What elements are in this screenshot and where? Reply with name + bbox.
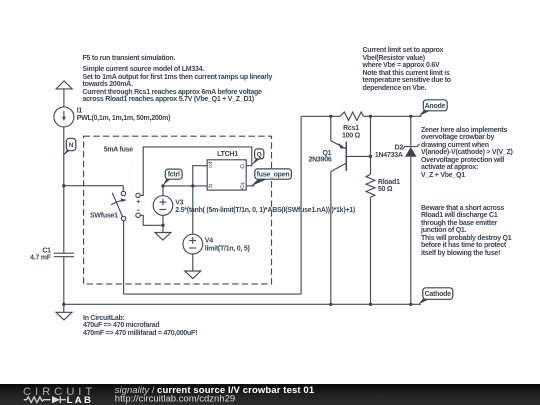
svg-text:http://circuitlab.com/cdznh29: http://circuitlab.com/cdznh29 [115,394,235,405]
svg-text:LAB: LAB [67,395,94,405]
